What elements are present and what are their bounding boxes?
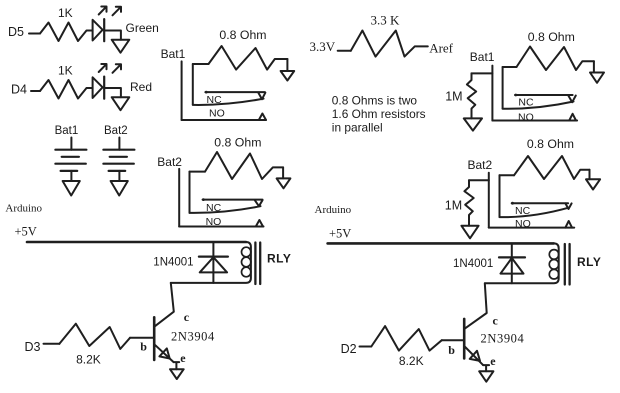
wire emitter (left) [174, 362, 180, 369]
junction dot NC (left Bat2) [202, 198, 205, 201]
svg-text:Bat1: Bat1 [55, 125, 79, 137]
relay core bars (right RLY) [565, 244, 570, 285]
svg-text:D5: D5 [8, 25, 24, 39]
wire armature (left Bat2) [190, 206, 261, 213]
svg-text:Bat2: Bat2 [468, 158, 493, 172]
resistor 0.8 Ohm (right Bat2) [514, 156, 590, 179]
wire resistor to ground (left Bat1) [286, 59, 288, 71]
svg-text:in parallel: in parallel [332, 121, 383, 135]
svg-text:0.8 Ohms is two: 0.8 Ohms is two [332, 94, 418, 108]
svg-text:Aref: Aref [429, 40, 453, 55]
wire D4 to R [31, 90, 40, 92]
wire resistor to ground (left Bat2) [282, 167, 284, 178]
svg-text:2N3904: 2N3904 [171, 329, 215, 343]
wire resistor to ground (right Bat2) [589, 170, 591, 180]
wire common pole vertical (right Bat2) [499, 175, 501, 217]
wire Bat1 vertical to NO (right) [491, 66, 493, 121]
svg-text:1N4001: 1N4001 [153, 256, 193, 268]
ground (red LED) [112, 97, 130, 110]
svg-text:e: e [490, 354, 496, 368]
contact NC arrowhead (left Bat1) [258, 93, 265, 100]
svg-text:b: b [448, 343, 455, 357]
wire base (right) [442, 339, 463, 341]
transistor Q2 2N3904 (right) [464, 319, 483, 365]
wire Bat1 vertical to NO [181, 61, 183, 120]
svg-text:0.8 Ohm: 0.8 Ohm [527, 137, 574, 151]
wire 3.3V to R [338, 50, 351, 52]
ground (green LED) [112, 40, 130, 53]
contact NO terminal (left Bat1) [259, 114, 266, 121]
svg-text:+5V: +5V [329, 226, 351, 240]
resistor R 1M (right Bat2) [464, 180, 473, 225]
svg-text:Green: Green [126, 21, 159, 35]
wire NC line (right Bat1) [515, 94, 573, 96]
wire common pole vertical (left Bat1) [192, 64, 194, 105]
wire Bat2 vertical to NO [178, 169, 180, 227]
wire to resistor (right Bat2) [500, 174, 515, 176]
transistor Q1 2N3904 (left) [154, 317, 173, 362]
contact NO terminal (right Bat2) [565, 221, 572, 228]
svg-text:0.8 Ohm: 0.8 Ohm [219, 28, 266, 42]
ground (left Bat1 0.8 Ohm) [281, 71, 295, 81]
contact NO terminal (right Bat1) [569, 114, 576, 121]
wire D5 to R [29, 33, 40, 35]
junction dot NC (right Bat1) [514, 94, 517, 97]
ground (left Bat2 0.8 Ohm) [277, 178, 291, 188]
note text parallel resistors [332, 94, 426, 135]
ground (right Bat2 0.8 Ohm) [586, 179, 600, 189]
wire collector to relay (left) [155, 283, 174, 326]
battery Bat2 [103, 138, 134, 182]
svg-text:NO: NO [206, 216, 222, 228]
svg-text:3.3 K: 3.3 K [371, 13, 401, 28]
diode 1N4001 (right) [499, 243, 525, 283]
resistor 0.8 Ohm (right Bat1) [517, 47, 594, 71]
wire common pole vertical (left Bat2) [189, 172, 191, 213]
wire resistor to ground (right Bat1) [593, 61, 595, 72]
wire armature (left Bat1) [193, 99, 264, 105]
wire Bat2 vertical to NO (right) [488, 173, 490, 228]
resistor R 1M (right Bat1) [467, 73, 476, 118]
svg-text:NO: NO [515, 218, 531, 230]
wire to resistor (left Bat2) [190, 171, 206, 173]
svg-text:Arduino: Arduino [5, 202, 42, 214]
svg-text:8.2K: 8.2K [76, 352, 101, 366]
svg-text:NO: NO [209, 108, 225, 120]
wire Bat1 to 1M (right) [472, 72, 493, 74]
wire NC line (right Bat2) [512, 202, 568, 204]
wire +5V rail (left) [27, 241, 246, 244]
junction dot NC (left Bat1) [205, 91, 208, 94]
svg-text:NC: NC [518, 96, 534, 108]
svg-text:RLY: RLY [267, 251, 291, 265]
svg-text:0.8 Ohm: 0.8 Ohm [214, 136, 261, 150]
svg-text:Arduino: Arduino [315, 204, 352, 216]
wire D2 to R [360, 346, 372, 348]
resistor 0.8 Ohm (left Bat2) [205, 152, 283, 179]
wire armature (right Bat1) [503, 102, 574, 109]
svg-text:8.2K: 8.2K [399, 354, 424, 368]
relay coil outline (left RLY) [171, 242, 251, 283]
svg-text:NO: NO [518, 111, 534, 123]
relay coil outline (right RLY) [485, 243, 559, 283]
ground (Bat2) [111, 181, 128, 196]
relay coil loops (left RLY) [242, 247, 251, 277]
svg-text:RLY: RLY [577, 255, 601, 269]
contact NC arrowhead (left Bat2) [255, 200, 263, 206]
wire Bat2 to 1M (right) [469, 179, 489, 181]
svg-text:3.3V: 3.3V [310, 39, 336, 54]
relay coil loops (right RLY) [549, 250, 558, 279]
wire to resistor (left Bat1) [193, 63, 209, 65]
ground (Bat1) [63, 181, 80, 196]
svg-text:b: b [140, 339, 147, 353]
contact NO terminal (left Bat2) [256, 220, 263, 227]
ground (left emitter) [170, 369, 184, 379]
svg-text:D4: D4 [11, 83, 27, 97]
relay core bars (left RLY) [255, 243, 260, 285]
ground (right Bat1 1M) [464, 118, 482, 130]
svg-text:+5V: +5V [15, 225, 37, 239]
wire LED to ground [104, 88, 121, 97]
svg-text:D3: D3 [25, 340, 41, 354]
svg-text:1N4001: 1N4001 [453, 258, 493, 270]
svg-text:Bat2: Bat2 [104, 125, 128, 137]
svg-text:1K: 1K [58, 6, 73, 20]
battery Bat1 [55, 138, 86, 182]
contact NC arrowhead (right Bat1) [568, 96, 576, 103]
ground (right Bat1 0.8 Ohm) [590, 73, 604, 83]
svg-text:Bat1: Bat1 [470, 50, 495, 64]
svg-text:c: c [493, 313, 499, 327]
wire emitter (right) [483, 365, 489, 371]
svg-text:2N3904: 2N3904 [481, 332, 525, 346]
wire NC line (left Bat2) [203, 199, 263, 201]
LED green D1 [93, 7, 121, 42]
wire NC line (left Bat1) [205, 91, 265, 93]
LED red D2 [93, 64, 121, 99]
svg-text:D2: D2 [341, 342, 357, 356]
wire armature (right Bat2) [500, 208, 570, 218]
wire NO line (right Bat1) [492, 120, 577, 122]
svg-text:1M: 1M [445, 90, 462, 104]
resistor 1K (D4 series) [40, 80, 93, 99]
svg-text:Bat1: Bat1 [161, 47, 186, 61]
wire collector to relay (right) [465, 283, 487, 328]
wire LED to ground [104, 31, 121, 40]
svg-text:e: e [180, 351, 186, 365]
resistor 8.2K (right) [371, 326, 442, 351]
wire NO line (left Bat1) [182, 119, 266, 121]
resistor 8.2K (left) [59, 324, 130, 349]
svg-text:1K: 1K [58, 64, 73, 78]
diode 1N4001 (left) [199, 242, 228, 283]
resistor 3.3 K [351, 31, 428, 57]
ground (right Bat2 1M) [461, 226, 478, 239]
svg-text:1.6 Ohm resistors: 1.6 Ohm resistors [332, 107, 426, 121]
svg-text:Bat2: Bat2 [157, 155, 182, 169]
svg-text:1M: 1M [445, 198, 462, 212]
wire NO line (right Bat2) [489, 227, 574, 229]
svg-text:c: c [184, 310, 190, 324]
resistor 0.8 Ohm (left Bat1) [209, 46, 288, 70]
wire +5V rail (right) [328, 242, 554, 245]
wire common pole vertical (right Bat1) [502, 67, 504, 109]
wire base (left) [130, 337, 153, 339]
wire D3 to R [44, 343, 60, 345]
svg-text:0.8 Ohm: 0.8 Ohm [528, 30, 575, 44]
wire to resistor (right Bat1) [503, 66, 517, 68]
wire NO line (left Bat2) [179, 226, 263, 228]
ground (right emitter) [479, 371, 493, 381]
resistor 1K (D5 series) [40, 23, 93, 42]
contact NC arrowhead (right Bat2) [565, 203, 571, 209]
svg-text:Red: Red [130, 80, 152, 94]
junction dot NC (right Bat2) [511, 202, 514, 205]
